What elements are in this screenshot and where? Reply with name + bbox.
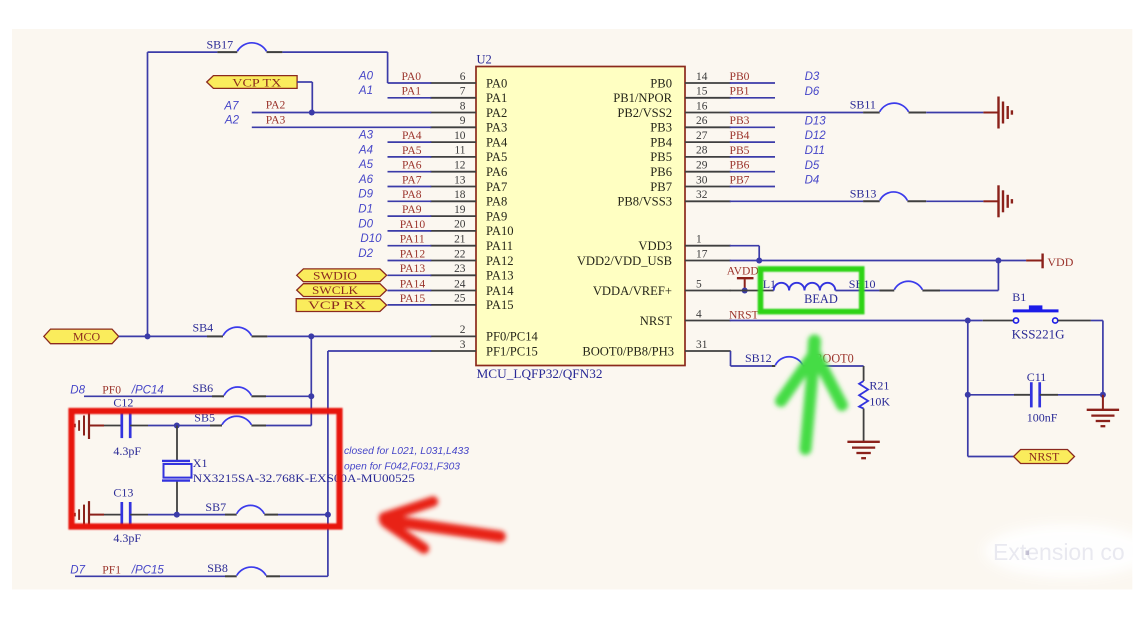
U2 pin 21 bbox=[430, 234, 476, 246]
annotation green rectangle highlight bbox=[761, 269, 862, 312]
U2 pin 4 bbox=[685, 308, 731, 320]
U2 pin name VDDA/VREF+ bbox=[593, 284, 672, 298]
port MCO flag bbox=[44, 329, 119, 344]
svg-text:PB8/VSS3: PB8/VSS3 bbox=[617, 195, 672, 209]
net label A7 bbox=[223, 100, 239, 112]
wire PA9 stub bbox=[388, 215, 432, 217]
wire SB17 net: top horizontal left segment bbox=[148, 51, 218, 53]
button B1 part KSS221G bbox=[1012, 327, 1065, 341]
U2 pin name PA7 bbox=[486, 180, 507, 194]
U2 pin name PA13 bbox=[486, 269, 514, 283]
button B1 label bbox=[1012, 290, 1026, 304]
net label BOOT0 bbox=[814, 352, 853, 366]
svg-text:PB5: PB5 bbox=[650, 150, 672, 164]
svg-text:NRST: NRST bbox=[1029, 450, 1060, 464]
net label D1 bbox=[358, 204, 373, 216]
wire C11 row left bbox=[968, 394, 1014, 396]
solder bridge SB7 arc bbox=[237, 505, 265, 513]
capacitor C13 value 4.3pF bbox=[113, 531, 141, 545]
svg-text:PB6: PB6 bbox=[730, 159, 750, 172]
U2 pin name PA12 bbox=[486, 254, 514, 268]
svg-text:PB1: PB1 bbox=[730, 85, 750, 98]
watermark text bbox=[993, 539, 1125, 565]
net label PB1 bbox=[730, 85, 750, 98]
solder bridge SB10 arc bbox=[894, 281, 922, 289]
wire BEAD to SB10 bbox=[835, 290, 879, 292]
svg-text:D8: D8 bbox=[70, 384, 85, 396]
net label PA13 bbox=[400, 262, 426, 275]
svg-text:PA6: PA6 bbox=[402, 159, 422, 172]
solder bridge SB11 label bbox=[850, 98, 876, 112]
U2 pin name PA15 bbox=[486, 298, 514, 312]
U2 pin name PA2 bbox=[486, 106, 507, 120]
junction VDD/SB10 riser bbox=[995, 258, 1001, 264]
U2 pin name PA6 bbox=[486, 165, 507, 179]
svg-text:B1: B1 bbox=[1012, 290, 1026, 304]
U2 pin 13 bbox=[430, 174, 476, 186]
wire PA1 stub bbox=[388, 97, 432, 99]
svg-text:U2: U2 bbox=[477, 53, 492, 67]
net label PA7 bbox=[402, 173, 422, 186]
svg-text:PA4: PA4 bbox=[402, 129, 422, 142]
net label A1 bbox=[358, 85, 373, 97]
U2 pin name PB6 bbox=[650, 165, 672, 179]
net label PA3 bbox=[266, 114, 286, 127]
net label D5 bbox=[805, 160, 820, 172]
wire SB6 to vertical bbox=[266, 395, 311, 397]
svg-text:12: 12 bbox=[454, 160, 466, 172]
net label PA4 bbox=[402, 129, 422, 142]
solder bridge SB11 arc bbox=[880, 103, 909, 112]
junction SB6/vertical bbox=[308, 393, 314, 399]
svg-text:VDDA/VREF+: VDDA/VREF+ bbox=[593, 284, 672, 298]
capacitor C12 value 4.3pF bbox=[113, 444, 141, 458]
net label D6 bbox=[805, 86, 820, 98]
solder bridge SB12 arc bbox=[775, 357, 803, 365]
U2 pin name PA1 bbox=[486, 91, 507, 105]
MCU U2 bbox=[476, 67, 685, 366]
wire PB2/VSS2 to SB11 bbox=[730, 112, 863, 114]
svg-text:VDD3: VDD3 bbox=[638, 239, 672, 253]
net label A6 bbox=[358, 174, 374, 186]
net label D12 bbox=[805, 130, 827, 142]
solder bridge SB5 arc bbox=[222, 416, 251, 424]
svg-text:PA0: PA0 bbox=[402, 70, 422, 83]
svg-text:29: 29 bbox=[696, 160, 708, 172]
svg-text:Extension co: Extension co bbox=[993, 539, 1125, 565]
U2 pin 14 bbox=[685, 71, 731, 83]
solder bridge SB6 pads bbox=[212, 395, 266, 397]
solder bridge SB17 label bbox=[207, 38, 234, 52]
net label PA14 bbox=[400, 277, 426, 290]
svg-text:NX3215SA-32.768K-EXS00A-MU0052: NX3215SA-32.768K-EXS00A-MU00525 bbox=[193, 471, 415, 485]
svg-text:C13: C13 bbox=[113, 486, 133, 500]
U2 pin name PB0 bbox=[650, 76, 672, 90]
solder bridge SB4 arc bbox=[223, 327, 252, 335]
svg-text:D7: D7 bbox=[70, 564, 85, 576]
svg-text:D9: D9 bbox=[358, 189, 373, 201]
resistor R21 label bbox=[869, 379, 889, 393]
svg-text:6: 6 bbox=[460, 71, 466, 83]
net label D2 bbox=[358, 248, 373, 260]
wire PA6 stub bbox=[388, 171, 432, 173]
U2 pin 18 bbox=[430, 189, 476, 201]
svg-text:27: 27 bbox=[696, 130, 708, 142]
U2 pin name PA5 bbox=[486, 150, 507, 164]
junction C11 right bbox=[1100, 392, 1106, 398]
wire PB5 stub bbox=[730, 156, 775, 158]
wire PA13 stub bbox=[388, 274, 432, 276]
wire SB10 to VDD junction bbox=[940, 261, 998, 291]
wire BOOT0 from pin31 bbox=[731, 351, 773, 366]
ground at C13 bbox=[75, 501, 104, 528]
svg-text:closed for L021, L031,L433: closed for L021, L031,L433 bbox=[344, 446, 469, 457]
svg-text:A4: A4 bbox=[358, 144, 373, 156]
net label A0 bbox=[358, 70, 374, 82]
svg-text:22: 22 bbox=[454, 248, 466, 260]
solder bridge SB7 label bbox=[205, 500, 226, 514]
wire B1 right to C11 bbox=[1091, 321, 1103, 395]
net label D7 bbox=[70, 564, 85, 576]
svg-text:D13: D13 bbox=[805, 115, 827, 127]
power port AVDD bbox=[727, 265, 759, 291]
net label PA5 bbox=[402, 144, 422, 157]
wire PA14 stub bbox=[388, 290, 432, 292]
U2 pin 10 bbox=[430, 130, 476, 142]
U2 pin name PA8 bbox=[486, 195, 507, 209]
U2 pin 7 bbox=[430, 86, 476, 98]
U2 pin name PB5 bbox=[650, 150, 672, 164]
ground at R21 bbox=[847, 409, 879, 459]
note: open for F042 bbox=[344, 462, 460, 473]
svg-text:PA9: PA9 bbox=[486, 209, 507, 223]
junction NRST/left riser bbox=[965, 318, 971, 324]
net label D13 bbox=[805, 115, 827, 127]
wire PA8 stub bbox=[388, 200, 432, 202]
svg-text:15: 15 bbox=[696, 86, 708, 98]
svg-text:4: 4 bbox=[696, 308, 702, 320]
wire D8/PF0 row bbox=[84, 395, 212, 397]
svg-text:24: 24 bbox=[454, 278, 466, 290]
svg-text:3: 3 bbox=[460, 339, 466, 351]
svg-text:PA11: PA11 bbox=[486, 239, 513, 253]
capacitor C11 bbox=[1014, 382, 1058, 407]
net label PF1 bbox=[102, 563, 121, 576]
wire C13 to SB7 bbox=[148, 514, 225, 516]
net label A2 bbox=[224, 115, 240, 127]
svg-text:PB3: PB3 bbox=[650, 121, 672, 135]
annotation red rectangle highlight bbox=[72, 411, 340, 527]
svg-text:VCP TX: VCP TX bbox=[232, 77, 282, 89]
solder bridge SB8 pads bbox=[225, 575, 280, 577]
svg-text:D1: D1 bbox=[358, 204, 373, 216]
svg-text:R21: R21 bbox=[869, 379, 889, 393]
svg-text:/PC15: /PC15 bbox=[131, 564, 165, 576]
solder bridge SB13 arc bbox=[880, 192, 908, 201]
svg-text:D11: D11 bbox=[805, 145, 825, 157]
net label PB6 bbox=[730, 159, 750, 172]
net label A5 bbox=[358, 159, 374, 171]
net label PB0 bbox=[730, 70, 750, 83]
svg-text:PA1: PA1 bbox=[486, 91, 507, 105]
U2 pin name VDD2/VDD_USB bbox=[577, 254, 672, 268]
wire NRST left riser bbox=[968, 321, 1014, 457]
svg-text:A2: A2 bbox=[224, 115, 240, 127]
U2 pin 3 bbox=[430, 339, 476, 351]
wire PA4 stub bbox=[388, 141, 432, 143]
solder bridge SB4 label bbox=[193, 321, 214, 335]
solder bridge SB6 arc bbox=[224, 387, 251, 395]
U2 pin name PA0 bbox=[486, 76, 507, 90]
svg-text:PA15: PA15 bbox=[486, 298, 514, 312]
ground at SB11 bbox=[983, 97, 1012, 129]
inductor L1 value BEAD bbox=[804, 292, 838, 306]
U2 pin 5 bbox=[685, 278, 731, 290]
svg-text:PB1/NPOR: PB1/NPOR bbox=[613, 91, 672, 105]
solder bridge SB8 arc bbox=[237, 567, 266, 575]
wire PA12 stub bbox=[388, 260, 432, 262]
svg-text:16: 16 bbox=[696, 100, 708, 112]
wire PA10 stub bbox=[388, 230, 432, 232]
svg-text:PF1: PF1 bbox=[102, 563, 121, 576]
svg-text:PA9: PA9 bbox=[402, 203, 422, 216]
U2 pin 17 bbox=[685, 248, 731, 260]
net label D4 bbox=[805, 175, 820, 187]
wire PA7 stub bbox=[388, 186, 432, 188]
svg-text:PA12: PA12 bbox=[486, 254, 514, 268]
wire VDD2/VDD_USB to VDD bbox=[730, 260, 1026, 262]
svg-text:BEAD: BEAD bbox=[804, 292, 838, 306]
svg-text:PA0: PA0 bbox=[486, 76, 507, 90]
solder bridge SB4 pads bbox=[207, 335, 267, 337]
svg-text:PA14: PA14 bbox=[400, 277, 426, 290]
net label PB4 bbox=[730, 129, 750, 142]
svg-text:PA8: PA8 bbox=[486, 195, 507, 209]
svg-text:PB5: PB5 bbox=[730, 144, 750, 157]
svg-text:D6: D6 bbox=[805, 86, 820, 98]
svg-text:A1: A1 bbox=[358, 85, 373, 97]
svg-text:SWCLK: SWCLK bbox=[312, 285, 359, 297]
junction PA2/VCP_TX bbox=[309, 110, 315, 116]
svg-text:PB2/VSS2: PB2/VSS2 bbox=[617, 106, 672, 120]
junction MCO/left vertical bbox=[145, 333, 151, 339]
svg-text:PA11: PA11 bbox=[400, 233, 425, 246]
net label PA2 bbox=[266, 99, 286, 112]
svg-text:X1: X1 bbox=[193, 456, 208, 470]
svg-text:NRST: NRST bbox=[640, 314, 672, 328]
U2 pin name NRST bbox=[640, 314, 672, 328]
U2 pin 19 bbox=[430, 204, 476, 216]
U2 reference designator bbox=[477, 53, 492, 67]
svg-text:VCP RX: VCP RX bbox=[308, 300, 367, 312]
wire VCP_TX to PA2 bbox=[297, 82, 312, 113]
svg-text:D12: D12 bbox=[805, 130, 827, 142]
annotation green arrow bbox=[781, 341, 842, 449]
svg-text:VDD: VDD bbox=[1047, 255, 1073, 269]
svg-text:14: 14 bbox=[696, 71, 708, 83]
net label A4 bbox=[358, 144, 373, 156]
svg-text:4.3pF: 4.3pF bbox=[113, 444, 141, 458]
svg-text:SB6: SB6 bbox=[193, 381, 214, 395]
ground at SB13 bbox=[983, 185, 1012, 217]
wire crystal branch vertical bbox=[310, 336, 312, 425]
net label /PC14 bbox=[131, 384, 164, 396]
U2 pin name PB4 bbox=[650, 135, 672, 149]
wire SB4 to PF0 pin bbox=[267, 335, 431, 337]
crystal X1 connections bbox=[176, 426, 178, 515]
wire PB8/VSS3 to SB13 bbox=[730, 200, 863, 202]
svg-text:PA12: PA12 bbox=[400, 247, 426, 260]
svg-text:SB7: SB7 bbox=[205, 500, 226, 514]
U2 pin 12 bbox=[430, 160, 476, 172]
solder bridge SB17 pads bbox=[217, 51, 282, 53]
svg-text:PB0: PB0 bbox=[650, 76, 672, 90]
svg-text:PB7: PB7 bbox=[650, 180, 672, 194]
wire SB8 to vertical bbox=[280, 575, 328, 577]
svg-text:11: 11 bbox=[455, 145, 466, 157]
junction VDD3/VDD2 bbox=[756, 258, 762, 264]
svg-text:30: 30 bbox=[696, 174, 708, 186]
wire PB0 stub bbox=[730, 82, 775, 84]
net label A3 bbox=[358, 130, 374, 142]
U2 pin 29 bbox=[685, 160, 731, 172]
U2 pin name PB7 bbox=[650, 180, 672, 194]
net label PB3 bbox=[730, 114, 750, 127]
wire NRST row bbox=[730, 320, 983, 322]
svg-text:A5: A5 bbox=[358, 159, 374, 171]
solder bridge SB13 label bbox=[850, 186, 877, 200]
svg-text:SB4: SB4 bbox=[193, 321, 214, 335]
svg-text:PA5: PA5 bbox=[486, 150, 507, 164]
svg-text:17: 17 bbox=[696, 248, 708, 260]
resistor R21 bbox=[859, 381, 868, 409]
svg-text:20: 20 bbox=[454, 219, 466, 231]
solder bridge SB6 label bbox=[193, 381, 214, 395]
svg-text:PA3: PA3 bbox=[266, 114, 286, 127]
svg-text:SB13: SB13 bbox=[850, 186, 877, 200]
capacitor C12 label bbox=[113, 396, 133, 410]
wire MCO to junction bbox=[119, 335, 207, 337]
svg-text:8: 8 bbox=[460, 100, 466, 112]
net label PA6 bbox=[402, 159, 422, 172]
U2 pin 32 bbox=[685, 189, 731, 201]
U2 pin name PF0/PC14 bbox=[486, 330, 539, 344]
svg-text:7: 7 bbox=[460, 86, 466, 98]
U2 pin 26 bbox=[685, 115, 731, 127]
svg-text:D0: D0 bbox=[358, 218, 373, 230]
svg-text:21: 21 bbox=[454, 234, 466, 246]
svg-text:PB4: PB4 bbox=[650, 135, 672, 149]
capacitor C12 bbox=[104, 413, 148, 438]
U2 pin name PA11 bbox=[486, 239, 513, 253]
U2 pin 27 bbox=[685, 130, 731, 142]
solder bridge SB8 label bbox=[207, 561, 228, 575]
svg-text:31: 31 bbox=[696, 339, 708, 351]
inductor L1 label bbox=[763, 277, 776, 291]
U2 part type MCU_LQFP32/QFN32 bbox=[477, 367, 603, 381]
ground at C11 bbox=[1087, 395, 1119, 426]
U2 pin 8 bbox=[430, 100, 476, 112]
svg-text:SB17: SB17 bbox=[207, 38, 234, 52]
capacitor C13 bbox=[104, 502, 148, 527]
junction C13/crystal bottom bbox=[174, 512, 180, 518]
capacitor C13 label bbox=[113, 486, 133, 500]
svg-text:PA4: PA4 bbox=[486, 135, 508, 149]
svg-text:SB11: SB11 bbox=[850, 98, 876, 112]
solder bridge SB7 pads bbox=[225, 514, 278, 516]
crystal X1 bbox=[162, 461, 192, 481]
svg-text:C12: C12 bbox=[113, 396, 133, 410]
svg-text:D4: D4 bbox=[805, 175, 820, 187]
U2 pin 2 bbox=[430, 324, 476, 336]
svg-text:D2: D2 bbox=[358, 248, 373, 260]
U2 pin name PB3 bbox=[650, 121, 672, 135]
svg-text:PA6: PA6 bbox=[486, 165, 507, 179]
svg-text:26: 26 bbox=[696, 115, 708, 127]
svg-text:13: 13 bbox=[454, 174, 466, 186]
U2 pin name PA3 bbox=[486, 121, 507, 135]
svg-text:SB12: SB12 bbox=[745, 351, 772, 365]
svg-text:PA7: PA7 bbox=[402, 173, 422, 186]
wire PB4 stub bbox=[730, 141, 775, 143]
svg-text:A6: A6 bbox=[358, 174, 374, 186]
wire VDD3 pin1 bbox=[730, 246, 760, 261]
svg-text:1: 1 bbox=[696, 234, 702, 246]
wire D7/PF1 row bbox=[75, 575, 225, 577]
wire SB17 net: left vertical bbox=[147, 52, 149, 336]
crystal X1 label bbox=[193, 456, 208, 470]
annotation red arrow bbox=[379, 502, 500, 549]
wire PF1 to SB8 vertical bbox=[328, 351, 431, 576]
svg-text:A7: A7 bbox=[223, 100, 239, 112]
svg-text:C11: C11 bbox=[1027, 370, 1047, 384]
wire VDDA pin5 to L1 bbox=[730, 290, 774, 292]
U2 pin 9 bbox=[430, 115, 476, 127]
svg-text:PB3: PB3 bbox=[730, 114, 750, 127]
svg-text:D3: D3 bbox=[805, 71, 820, 83]
svg-text:AVDD: AVDD bbox=[727, 265, 759, 278]
svg-text:2: 2 bbox=[460, 324, 466, 336]
svg-text:PA14: PA14 bbox=[486, 284, 514, 298]
svg-text:23: 23 bbox=[454, 263, 466, 275]
svg-text:4.3pF: 4.3pF bbox=[113, 531, 141, 545]
svg-text:32: 32 bbox=[696, 189, 708, 201]
wire PA11 stub bbox=[388, 245, 432, 247]
junction AVDD on VDDA wire bbox=[742, 288, 748, 294]
junction SB7/vertical bbox=[325, 512, 331, 518]
U2 pin 6 bbox=[430, 71, 476, 83]
resistor R21 value 10K bbox=[869, 394, 890, 408]
svg-text:D10: D10 bbox=[360, 233, 382, 245]
svg-text:open for F042,F031,F303: open for F042,F031,F303 bbox=[344, 462, 460, 473]
svg-text:PA15: PA15 bbox=[400, 292, 426, 305]
svg-text:28: 28 bbox=[696, 145, 708, 157]
svg-text:MCO: MCO bbox=[73, 329, 101, 343]
net label D10 bbox=[360, 233, 382, 245]
net label D8 bbox=[70, 384, 85, 396]
watermark blob bbox=[984, 524, 1141, 578]
svg-text:PF0: PF0 bbox=[102, 383, 121, 396]
svg-text:D5: D5 bbox=[805, 160, 820, 172]
svg-text:PF1/PC15: PF1/PC15 bbox=[486, 344, 538, 358]
net label NRST bbox=[729, 309, 759, 322]
net label PB5 bbox=[730, 144, 750, 157]
svg-text:18: 18 bbox=[454, 189, 466, 201]
svg-text:10K: 10K bbox=[869, 394, 890, 408]
U2 pin name PB8/VSS3 bbox=[617, 195, 672, 209]
U2 pin name PF1/PC15 bbox=[486, 344, 538, 358]
net label PA9 bbox=[402, 203, 422, 216]
